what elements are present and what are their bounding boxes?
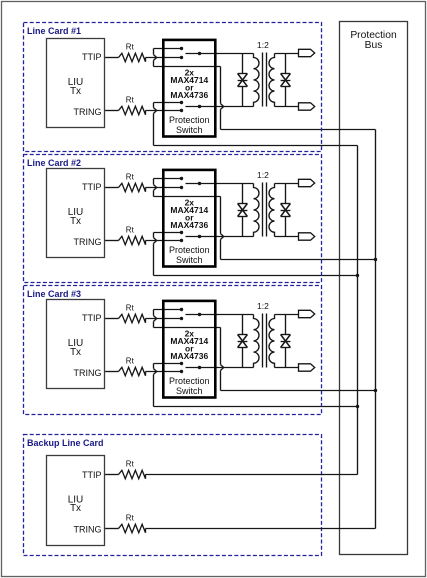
svg-text:Rt: Rt [126, 460, 135, 469]
svg-text:Backup Line Card: Backup Line Card [27, 438, 104, 448]
svg-text:Rt: Rt [126, 514, 135, 523]
svg-text:Line Card #2: Line Card #2 [27, 158, 81, 168]
svg-text:Line Card #3: Line Card #3 [27, 289, 81, 299]
svg-text:TRING: TRING [74, 525, 102, 535]
svg-text:Tx: Tx [70, 503, 81, 514]
svg-text:Bus: Bus [365, 40, 383, 51]
svg-text:TTIP: TTIP [82, 470, 102, 480]
svg-text:Line Card #1: Line Card #1 [27, 26, 81, 36]
